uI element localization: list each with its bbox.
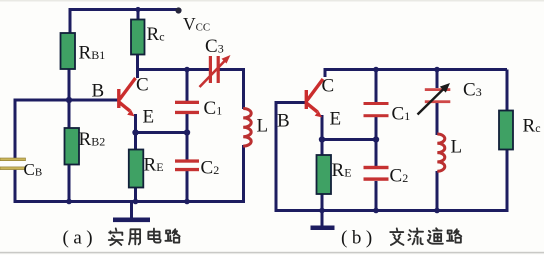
- wire: (a) RE bottom to ground rail: [134, 188, 137, 204]
- node: (b) emitter bottom junction: [319, 208, 325, 214]
- wire: (a) base node down to RB2 top: [68, 100, 71, 129]
- resistor RB2: [65, 128, 80, 165]
- wire: (a) collector node to C3 left plate: [138, 68, 210, 71]
- wire: (a) top supply rail: [70, 10, 179, 34]
- caption (b) hanzi: 交流通路: [390, 228, 461, 245]
- node: (a) base divider junction: [66, 97, 72, 103]
- capacitor C1 (b) plates: [364, 102, 389, 117]
- wire: (a) emitter node to C1/C2 midpoint: [136, 131, 188, 134]
- wire: (a) emitter down to RE: [134, 114, 137, 150]
- capacitor CB plates: [0, 158, 26, 170]
- inductor L (b): [437, 134, 445, 171]
- wire: (a) bottom ground rail: [14, 200, 246, 203]
- wire: (b) emitter node to capacitor tap: [322, 138, 376, 141]
- resistor Rc (a): [131, 20, 145, 55]
- wire: (a) tank right rail above L: [242, 68, 245, 109]
- svg-text:L: L: [257, 116, 269, 137]
- resistor RE (b): [317, 155, 332, 194]
- resistor RB1: [61, 33, 76, 69]
- node: (b) C1 tap on top rail: [373, 67, 379, 73]
- transistor Q (b): [306, 79, 323, 112]
- resistor Rc (b): [499, 111, 513, 150]
- svg-text:C: C: [322, 76, 335, 97]
- wire: (a) Rc bottom to collector node: [136, 55, 139, 79]
- wire: (a) left rail upper (base node down to CB): [14, 99, 17, 159]
- ground (b): bar: [311, 226, 335, 231]
- wire: (b) L bottom to bottom rail: [436, 171, 439, 211]
- svg-text:E: E: [143, 107, 155, 128]
- wire: (a) C-divider rail C1 to C2: [186, 114, 189, 160]
- inductor L (a): [243, 109, 251, 147]
- transistor Q (a): emitter arrowhead: [127, 110, 134, 117]
- node: (a) collector/C1 rail junction on top wire: [184, 67, 190, 73]
- capacitor C2 (b) plates: [364, 166, 389, 181]
- wire: (b) top rail collector to Rc: [325, 70, 507, 78]
- svg-text:B: B: [277, 111, 290, 132]
- wire: (b) C3 bottom to L top: [436, 103, 439, 135]
- ground (a): stub: [130, 202, 133, 219]
- svg-text:B: B: [92, 81, 105, 102]
- wire: (a) left rail lower (CB to bottom rail): [14, 167, 17, 203]
- wire: (b) Rc rail below: [506, 150, 509, 211]
- svg-text:(a): (a): [63, 228, 98, 249]
- wire: (a) tank right rail below L: [242, 145, 245, 203]
- resistor RE (a): [129, 150, 144, 188]
- wire: (a) base wire: [15, 99, 118, 102]
- wire: (b) C2 bottom to bottom rail: [375, 181, 378, 211]
- wire: (a) RB2 bottom to ground rail: [68, 164, 71, 204]
- wire: (a) RB1 bottom to base node: [68, 69, 71, 101]
- wire: (b) RE bottom to bottom rail: [321, 194, 324, 211]
- ground (b): stub: [321, 210, 324, 226]
- wire: (b) base wire: [276, 101, 306, 104]
- svg-text:L: L: [451, 137, 463, 158]
- wire: (a) C3 right plate to tank top corner: [220, 68, 244, 71]
- transistor Q (a): [119, 78, 136, 111]
- svg-text:(b): (b): [341, 228, 377, 249]
- svg-text:C: C: [136, 75, 149, 96]
- ground (a): bar: [113, 218, 150, 223]
- wire: (b) Rc rail above: [506, 70, 509, 112]
- node: (a) C2 bottom junction: [184, 199, 190, 205]
- node: (a) emitter/C-divider junction: [132, 129, 138, 135]
- transistor Q (b): emitter arrowhead: [315, 111, 322, 118]
- caption (a) hanzi: 实用电路: [109, 228, 180, 245]
- node: (a) C1-C2 midpoint tap: [184, 129, 190, 135]
- svg-text:E: E: [330, 109, 342, 130]
- bottom page edge line: [0, 252, 544, 254]
- node: (a) RB2 bottom junction: [66, 199, 72, 205]
- node: (b) C2 bottom junction: [373, 208, 379, 214]
- node: Vcc terminal dot: [175, 7, 181, 13]
- node: (b) C3 tap on top rail: [434, 67, 440, 73]
- capacitor C2 (a) plates: [175, 159, 199, 171]
- wire: (a) Rc top stub: [137, 10, 140, 21]
- capacitor C3 (a): vertical plates in series on top wire: [209, 56, 220, 83]
- wire: (b) bottom rail: [275, 209, 509, 212]
- node: (b) L bottom junction: [434, 208, 440, 214]
- node: (b) emitter tap junction: [319, 136, 325, 142]
- top page edge line: [0, 0, 544, 2]
- wire: (a) C-divider rail C2 to bottom: [186, 171, 189, 203]
- wire: (b) C1 rail from top: [375, 70, 378, 103]
- node: (b) C1/C2 tap junction: [373, 136, 379, 142]
- wire: (b) C1 bottom to tap node: [375, 117, 378, 166]
- capacitor C3 (b) plates: [425, 88, 451, 103]
- capacitor C3 (a): variable arrow: [200, 55, 231, 87]
- node: (a) Rc tap on top rail: [135, 7, 140, 12]
- wire: (b) C3 rail from top: [436, 70, 439, 89]
- wire: (b) left rail: [275, 101, 278, 212]
- capacitor C3 (b): variable arrow (black): [418, 83, 451, 115]
- wire: (b) emitter down to RE: [321, 115, 324, 155]
- capacitor C1 (a) plates: [175, 101, 199, 114]
- node: (a) RE bottom junction: [133, 199, 139, 205]
- wire: (a) C-divider rail top (node to C1): [186, 70, 189, 102]
